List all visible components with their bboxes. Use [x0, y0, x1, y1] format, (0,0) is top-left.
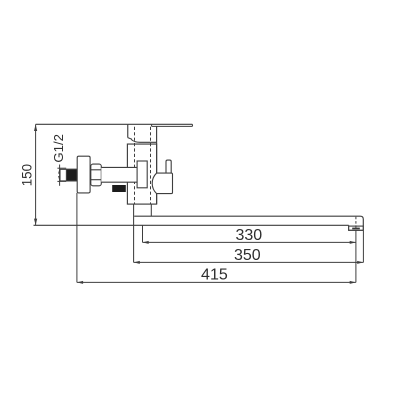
threaded nipple black thread	[66, 169, 77, 181]
wire spout bottom plane / 150 dim bottom extension	[34, 224, 349, 226]
arrow 330 left	[143, 241, 149, 244]
tick G1/2 top	[57, 167, 66, 169]
arrow 350 left	[134, 261, 140, 264]
svg-text:150: 150	[20, 164, 35, 186]
cap top and handle top edge	[128, 123, 193, 125]
arrow 330 right	[350, 241, 356, 244]
hex nut facet line bottom	[91, 179, 102, 181]
cap bottom notch and curve	[128, 138, 157, 143]
arrow G1/2 down	[58, 176, 61, 181]
faucet body	[127, 144, 156, 204]
dimension 150 line	[35, 124, 37, 225]
extension aerator center (330/415 right)	[355, 230, 357, 282]
extension line top (150 dim, faucet top plane)	[36, 123, 128, 125]
arrow 415 right	[350, 281, 356, 284]
cap left edge	[127, 124, 129, 137]
arrow 415 left	[77, 281, 83, 284]
aerator step	[349, 225, 364, 230]
cartridge plate	[137, 161, 147, 188]
neck left / 350 left extension	[133, 204, 135, 262]
aerator insert	[352, 228, 360, 230]
supply pipe top edge	[101, 166, 137, 168]
dimension 350 line	[134, 261, 364, 263]
supply pipe	[101, 167, 137, 182]
dimension G1/2 diameter line	[59, 165, 61, 186]
svg-text:330: 330	[235, 227, 262, 244]
aerator box	[349, 226, 364, 230]
arrow 150 top	[34, 124, 37, 131]
arrow 150 bottom	[34, 219, 37, 226]
dimension 330 line	[143, 241, 356, 243]
supply pipe bottom edge	[101, 181, 137, 183]
diverter knob	[152, 173, 172, 194]
svg-text:350: 350	[234, 247, 261, 264]
hidden line right bore	[150, 127, 152, 204]
handle step	[151, 124, 153, 126]
tick G1/2 bottom	[57, 180, 66, 182]
body right edge	[156, 126, 158, 204]
aerator hidden centerline	[355, 217, 357, 230]
wall flange escutcheon	[77, 156, 90, 193]
extension spout tip (350 right)	[362, 230, 364, 262]
spout top edge	[134, 216, 363, 230]
neck right	[150, 204, 152, 216]
handle lever bottom edge	[152, 124, 193, 126]
hex nut	[91, 164, 102, 186]
threaded nipple white end	[60, 169, 77, 181]
seal block	[112, 185, 126, 192]
hex nut facet line top	[91, 169, 102, 171]
dimension 415 line	[77, 281, 356, 283]
svg-text:415: 415	[201, 267, 228, 284]
extension line left (415 dim, from wall flange)	[76, 193, 78, 283]
arrow G1/2 up	[58, 168, 61, 173]
svg-text:G1/2: G1/2	[51, 134, 66, 163]
extension 330 left	[142, 225, 144, 242]
arrow 350 right	[357, 261, 363, 264]
hidden line left bore	[134, 127, 136, 204]
diverter stub	[166, 160, 171, 173]
